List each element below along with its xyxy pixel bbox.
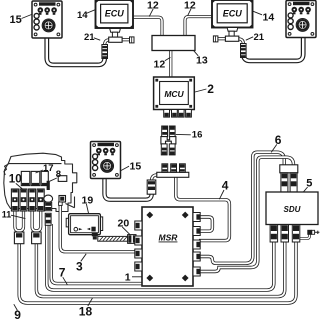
MCU display 2 — [154, 77, 195, 110]
svg-text:12: 12 — [154, 59, 166, 71]
wire: injector loop U2 — [32, 210, 41, 231]
connector pair assembly 16 — [161, 126, 176, 155]
engine block outline — [4, 153, 77, 211]
wire: MSR R1-R2 jumper loop — [199, 217, 212, 231]
junction hub box 13 — [152, 36, 195, 51]
spark plug lead item 8 — [44, 181, 53, 226]
svg-text:MCU: MCU — [164, 89, 184, 99]
wire 7: bus 1 (item8 to SDU-A) — [47, 224, 274, 290]
wire: remote cable M (panel 15M to engine harness connector) — [105, 178, 152, 200]
svg-text:14: 14 — [77, 10, 88, 21]
MSR main relay box 1 — [142, 207, 193, 286]
svg-text:ECU: ECU — [105, 9, 125, 19]
right-angle diagnostic plug on engine — [59, 196, 66, 206]
svg-text:19: 19 — [82, 194, 94, 206]
svg-text:18: 18 — [79, 304, 93, 318]
connector T 21 (right, below ECU-R) — [213, 28, 246, 58]
svg-text:12: 12 — [147, 0, 159, 11]
SDU bottom connectors A B C — [270, 225, 300, 243]
svg-text:ECU: ECU — [223, 8, 243, 18]
wire: injector loop U1 — [15, 210, 24, 231]
remote control panel 15 (middle) — [91, 142, 121, 179]
svg-text:4: 4 — [222, 178, 229, 192]
svg-text:20: 20 — [118, 217, 130, 229]
ECU display 14 (right) — [212, 0, 253, 28]
wire 12: ECU-L to hub — [133, 17, 162, 36]
svg-text:21: 21 — [84, 32, 95, 43]
engine module rect — [58, 176, 67, 182]
ECU display 14 (left) — [96, 0, 134, 28]
connector T 21 (left, below ECU-L) — [102, 29, 134, 59]
svg-text:17: 17 — [43, 163, 54, 174]
svg-text:11: 11 — [2, 210, 12, 220]
svg-text:15: 15 — [10, 14, 22, 26]
engine harness manifold with 3 connector tabs — [147, 164, 189, 194]
svg-text:1: 1 — [125, 271, 131, 283]
ignition coil rectangles (item 17 group) — [21, 171, 48, 185]
svg-text:12: 12 — [184, 0, 196, 11]
svg-text:3: 3 — [76, 259, 83, 273]
svg-text:10: 10 — [9, 174, 22, 186]
remote control panel (top right) — [286, 1, 316, 38]
wire 3: engine plug down and right to MSR L3 — [60, 205, 136, 252]
svg-text:13: 13 — [196, 55, 208, 67]
wire 12: hub to MCU — [169, 51, 172, 78]
svg-text:MSR: MSR — [159, 233, 179, 243]
svg-text:14: 14 — [263, 12, 275, 24]
svg-text:6: 6 — [275, 133, 282, 147]
wire: inner loop from item8 to under MSR — [51, 224, 143, 284]
svg-text:2: 2 — [207, 82, 214, 96]
svg-text:16: 16 — [192, 130, 203, 141]
wire: remote control cable B (panel B to ECU-R harness) — [243, 38, 303, 61]
small diagnostic plug right of SDU-C — [307, 230, 319, 235]
MCU bottom connector tabs — [164, 110, 192, 118]
svg-text:15: 15 — [130, 161, 142, 173]
wire 6b: MSR R5 up and over to SDU top connector R — [199, 157, 294, 271]
svg-text:7: 7 — [59, 265, 66, 279]
wire 12: ECU-R to hub — [185, 17, 212, 36]
SDU top connector bracket and plugs (wire 6) — [280, 165, 298, 192]
MSR right stubs R1-R5 — [193, 213, 200, 277]
wire terminal plug below U1 — [14, 232, 24, 244]
interface unit box 19 — [66, 214, 103, 235]
remote control panel 15 (top left) — [32, 1, 62, 38]
wire: remote control cable A (panel A to ECU-L harness) — [47, 38, 105, 65]
svg-text:9: 9 — [14, 308, 21, 322]
wire: SDU-C pigtail to small plug — [300, 235, 310, 239]
svg-text:21: 21 — [254, 32, 265, 43]
connector 20 with hatched cable — [92, 233, 136, 244]
wire 6a: MSR R4 up and over to SDU top connector L — [199, 152, 284, 263]
wire 18: bus 2 (U2 plug to SDU-B) — [36, 241, 284, 297]
MSR left stubs L1-L4 — [135, 221, 142, 271]
svg-text:8: 8 — [56, 169, 61, 180]
wire 4: harness manifold to MSR right stub 3 — [176, 176, 230, 241]
wire terminal plug below U2 — [32, 232, 41, 244]
SDU box 5 — [266, 192, 318, 225]
svg-text:SDU: SDU — [284, 205, 301, 214]
fuel injectors 10 (row of 4) — [11, 189, 44, 211]
wire 9: bus 3 (U1 plug to SDU-C) — [19, 241, 296, 303]
svg-text:5: 5 — [306, 177, 312, 189]
